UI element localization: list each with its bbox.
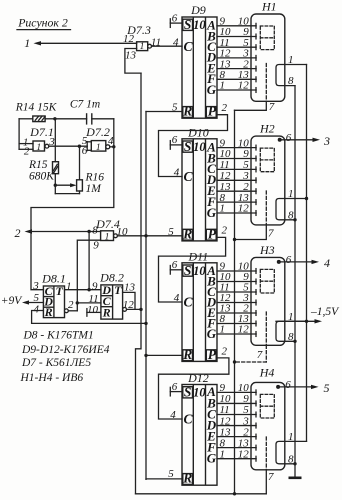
wire D7.1 output to D7.2 inputs: [49, 145, 87, 147]
svg-text:5: 5: [324, 381, 330, 395]
svg-text:1: 1: [66, 281, 72, 293]
H2 anode pin 6 wire to node 3: [278, 132, 330, 148]
D7.2 output bubble pin 4: [106, 145, 110, 149]
svg-text:6: 6: [286, 254, 292, 266]
svg-text:8: 8: [288, 75, 294, 87]
D8.2 R pin 10 stub with open T-bar: [87, 309, 101, 317]
resistor R15 680K: [28, 119, 59, 185]
wire D9 output D pin 12 to H1 pin 3: [217, 48, 256, 61]
svg-text:10: 10: [193, 386, 206, 400]
svg-text:C: C: [183, 39, 193, 54]
svg-text:6: 6: [172, 12, 178, 24]
svg-text:1M: 1M: [86, 183, 103, 195]
svg-text:8: 8: [92, 225, 98, 237]
svg-text:4: 4: [324, 256, 330, 270]
svg-text:G: G: [207, 451, 217, 466]
H4 grid electrode dashed line: [265, 437, 267, 470]
svg-text:1: 1: [288, 54, 294, 66]
svg-text:S: S: [184, 17, 192, 32]
svg-text:G: G: [207, 326, 217, 341]
junction H2 pin1 on bus: [305, 197, 308, 200]
svg-text:4: 4: [174, 166, 180, 178]
junction D7.4 out on bus B: [144, 234, 147, 237]
wire D11 output G pin 1 to H3 pin 12: [217, 324, 256, 337]
wire D11 output F pin 8 to H3 pin 13: [217, 313, 256, 326]
H2 7-segment digit (dashed figure 8): [260, 148, 274, 172]
svg-text:6: 6: [286, 132, 292, 144]
svg-text:Рисунок 2: Рисунок 2: [17, 16, 68, 30]
+9V supply arrow to D8.1 D input pin 5: [1, 295, 44, 307]
svg-text:9: 9: [92, 280, 98, 292]
wire D7.4 input 9 down to D8.1 Q-bar: [77, 240, 100, 311]
wire D9 output G pin 1 to H1 pin 12: [217, 80, 256, 93]
svg-text:R: R: [182, 104, 192, 119]
node R15 bottom / R16 wiper junction: [54, 184, 57, 187]
svg-text:6: 6: [172, 134, 178, 146]
svg-text:12: 12: [238, 203, 250, 215]
pin-1 bus vertical: [306, 65, 308, 442]
H3 filament bracket pins 1 and 8: [276, 311, 307, 343]
wire D11 output B pin 10 to H3 pin 9: [217, 271, 256, 284]
display H2 IV-6 VFD tube: [251, 122, 285, 225]
D11 R input wire pin 5 from bus B: [146, 354, 182, 356]
svg-text:P: P: [208, 347, 217, 362]
D7.2 input fork: [87, 142, 91, 151]
svg-text:5: 5: [168, 226, 174, 238]
component type annotations: [20, 330, 110, 384]
svg-text:2: 2: [24, 145, 30, 157]
D8.2 pin labels 9 11 10 13 12: [87, 280, 136, 316]
svg-text:7: 7: [268, 471, 274, 483]
svg-text:1: 1: [220, 448, 226, 460]
H4 7-segment digit (dashed figure 8): [260, 394, 274, 418]
H3 anode pin 6 wire to node 4: [277, 254, 330, 270]
svg-text:R: R: [182, 226, 192, 241]
H4 filament bracket pins 1 and 8: [276, 431, 307, 465]
svg-text:S: S: [184, 263, 192, 278]
svg-text:7: 7: [269, 101, 275, 113]
wire D9 output E pin 13 to H1 pin 2: [217, 58, 256, 71]
D7.3 output bubble: [148, 44, 152, 48]
svg-text:R: R: [182, 471, 192, 486]
svg-text:5: 5: [168, 468, 174, 480]
wire D9 output A pin 9 to H1 pin 10: [217, 16, 256, 29]
svg-text:9: 9: [93, 239, 99, 251]
svg-text:G: G: [207, 82, 217, 97]
bus A vertical (hours set line): [136, 73, 142, 494]
svg-text:S: S: [184, 139, 192, 154]
svg-text:D7.2: D7.2: [85, 125, 110, 139]
svg-text:8: 8: [288, 209, 294, 221]
capacitor C7 1m: [55, 99, 114, 125]
gate D7.4: [95, 217, 120, 242]
D10 S input pin 6 stub: [170, 134, 182, 149]
gate D7.2: [85, 125, 110, 153]
resistor R14 15K: [15, 102, 58, 122]
H4 grid pin 7 wire to bottom line: [266, 470, 274, 494]
H3 grid electrode dashed line: [265, 312, 267, 345]
svg-text:3: 3: [323, 134, 330, 148]
svg-text:H3: H3: [259, 243, 275, 257]
svg-text:D9-D12-К176ИЕ4: D9-D12-К176ИЕ4: [21, 344, 110, 356]
junction Qbar to D8.2 C wire: [76, 301, 79, 304]
display H4 IV-6 VFD tube: [251, 365, 285, 469]
node 1 external connection arrow: [24, 36, 41, 50]
svg-text:+9V: +9V: [1, 295, 24, 307]
svg-text:H1: H1: [261, 0, 277, 14]
wire D8.1 Q-bar to vertical feedback: [68, 310, 77, 312]
wire D10 output E pin 13 to H2 pin 2: [217, 181, 256, 194]
svg-text:P: P: [208, 104, 217, 119]
wire D8.1 Q pin 1 to D8.2 D pin 9: [65, 289, 101, 291]
wire D9 output F pin 8 to H1 pin 13: [217, 69, 256, 82]
gate D7.1: [29, 125, 54, 153]
wire D10 output A pin 9 to H2 pin 10: [217, 137, 256, 150]
H2 grid electrode dashed line: [265, 191, 267, 225]
svg-text:1: 1: [24, 36, 30, 50]
wire D11 output C pin 11 to H3 pin 5: [217, 282, 256, 295]
svg-text:C: C: [183, 412, 193, 427]
wire D8.2 pin 13 loop to pin 12 wire: [123, 292, 135, 309]
wire D8.1 R pin 4 to bottom reset line: [32, 311, 146, 324]
flip-flop D8.1 K176TM1: [41, 272, 66, 320]
svg-text:D8 - К176ТМ1: D8 - К176ТМ1: [23, 330, 94, 342]
D8.2 pin 12 bubble: [123, 308, 127, 312]
H4 anode pin 6 wire to node 5: [276, 379, 329, 395]
svg-text:C: C: [183, 295, 193, 310]
svg-text:1: 1: [105, 232, 110, 242]
svg-text:T: T: [56, 284, 64, 298]
H2 filament bracket pins 1 and 8: [276, 188, 307, 221]
svg-text:12: 12: [123, 33, 135, 45]
svg-text:1: 1: [220, 324, 226, 336]
svg-text:C7 1m: C7 1m: [70, 99, 100, 111]
D11 S input pin 6 stub: [170, 259, 182, 274]
wire D12 output G pin 1 to H4 pin 12: [217, 448, 256, 461]
wire D10 output F pin 8 to H2 pin 13: [217, 192, 256, 205]
D7.4 output bubble: [114, 234, 118, 238]
svg-text:D12: D12: [187, 371, 209, 385]
counter D9 K176IE4 block: [182, 3, 217, 118]
D8.1 pin labels 3 5 4 1 2: [32, 280, 74, 316]
svg-text:4: 4: [170, 409, 176, 421]
H1 7-segment digit (dashed figure 8): [260, 26, 274, 50]
H1 grid electrode dashed line: [265, 64, 267, 102]
svg-text:H4: H4: [259, 365, 275, 379]
svg-text:12: 12: [238, 448, 250, 460]
wire D12 output B pin 10 to H4 pin 9: [217, 393, 256, 406]
wire node1 to D7.3 input 12: [39, 42, 137, 44]
wire D12 output E pin 13 to H4 pin 2: [217, 426, 256, 439]
node D7.2 inputs / R16 top junction: [78, 145, 81, 148]
svg-text:2: 2: [222, 345, 228, 357]
D12 S input pin 6 stub: [170, 381, 182, 396]
bottom grid line: [136, 493, 267, 495]
D7.4 pin labels 8 9 10: [92, 225, 128, 252]
junction D11 R on bus B: [144, 354, 147, 357]
wire D7.3 input 13 to bus A: [125, 49, 141, 74]
svg-text:8: 8: [288, 453, 294, 465]
display H1 IV-6 VFD tube: [251, 0, 285, 101]
H3 grid pin 7 dashed wire: [235, 345, 267, 362]
title Рисунок 2: [17, 16, 71, 30]
D9 S input pin 6 stub: [170, 12, 182, 27]
wire oscillator output to D8.1 C input pin 3: [31, 147, 114, 290]
wire D10 output G pin 1 to H2 pin 12: [217, 203, 256, 216]
svg-text:3: 3: [32, 280, 39, 292]
svg-text:D10: D10: [187, 126, 209, 140]
svg-text:6: 6: [172, 259, 178, 271]
D11 P carry output pin 2 to D12 C input pin 4: [159, 345, 229, 420]
svg-text:G: G: [207, 205, 217, 220]
wire D12 output C pin 11 to H4 pin 5: [217, 404, 256, 417]
node 2 external connection arrow: [15, 226, 33, 240]
svg-text:4: 4: [34, 304, 40, 316]
wire D8.2 C input pin 11: [77, 302, 101, 304]
wire D7.2 output to node: [110, 146, 114, 148]
wire D12 output D pin 12 to H4 pin 3: [217, 415, 256, 428]
svg-text:6: 6: [172, 381, 178, 393]
grid bus vertical: [234, 110, 236, 494]
svg-text:1: 1: [220, 203, 226, 215]
counter D11 K176IE4 block: [182, 250, 217, 362]
H2 grid pin 7 wire: [235, 225, 275, 240]
svg-text:680K: 680K: [29, 171, 55, 183]
junction H2 pin8 on bus: [293, 218, 296, 221]
junction bottom reset line on bus B: [144, 322, 147, 325]
svg-text:T: T: [114, 283, 122, 297]
svg-text:4: 4: [174, 292, 180, 304]
wire D7.4 output pin 10 to reset bus B and D10 R pin 5: [117, 235, 182, 237]
svg-text:1: 1: [220, 80, 226, 92]
wire D11 output A pin 9 to H3 pin 10: [217, 261, 256, 274]
H1 grid pin 7 wire to grid bus: [235, 101, 275, 113]
junction node2 / Q1 tap: [87, 230, 90, 233]
D7.1 pin labels 1 2 3: [23, 136, 55, 157]
svg-text:8: 8: [288, 331, 294, 343]
svg-text:1: 1: [288, 431, 294, 443]
svg-text:10: 10: [193, 140, 206, 154]
svg-text:D9: D9: [190, 3, 206, 17]
svg-text:6: 6: [285, 379, 291, 391]
H3 pin 1 wire to -1.5V arrow: [276, 306, 340, 323]
svg-text:R16: R16: [85, 172, 105, 184]
svg-text:R14 15K: R14 15K: [15, 102, 58, 114]
svg-text:H2: H2: [259, 122, 275, 136]
H3 7-segment digit (dashed figure 8): [260, 269, 274, 293]
svg-text:13: 13: [125, 50, 137, 62]
wire D7.3 output pin 11 to D9 C input pin 4: [152, 36, 183, 48]
svg-text:5: 5: [172, 102, 178, 114]
junction H3 pin8 on bus: [293, 340, 296, 343]
D7.1 output bubble pin 3: [45, 144, 49, 148]
svg-text:4: 4: [173, 36, 179, 48]
node R14-C7-R15 junction: [53, 117, 56, 120]
svg-text:10: 10: [87, 304, 99, 316]
svg-text:C: C: [183, 169, 193, 184]
svg-text:2: 2: [222, 225, 228, 237]
wire D12 output A pin 9 to H4 pin 10: [217, 382, 256, 395]
wire D9 output C pin 11 to H1 pin 5: [217, 37, 256, 50]
svg-text:1: 1: [140, 42, 145, 52]
gate D7.3 (K561LE5 NOR as inverter): [126, 23, 151, 52]
wire C7 right plate down to D7.2 output node: [113, 119, 115, 147]
D7.2 pin labels 5 6 4: [82, 135, 114, 157]
svg-text:1: 1: [96, 143, 101, 153]
H1 filament bracket pins 1 and 8: [276, 54, 307, 87]
svg-text:10: 10: [193, 264, 206, 278]
svg-text:H1-H4 - ИВ6: H1-H4 - ИВ6: [20, 372, 84, 384]
svg-text:1: 1: [288, 188, 294, 200]
D9 P carry output pin 2 to D10 C input pin 4: [159, 102, 228, 179]
bus B vertical (reset bus): [145, 112, 147, 480]
D10 P carry output pin 2 to D11 C input pin 4: [159, 225, 228, 304]
D12 R input wire pin 5 from bus B: [146, 468, 182, 480]
flip-flop D8.2: [99, 271, 124, 320]
svg-text:2: 2: [68, 299, 74, 311]
junction pin 12 on bus A: [139, 308, 142, 311]
svg-text:D7 - К561ЛЕ5: D7 - К561ЛЕ5: [21, 357, 91, 369]
svg-text:R: R: [44, 305, 53, 319]
trimmer R16 1M with wiper arrow: [55, 146, 104, 195]
svg-text:1: 1: [36, 143, 41, 153]
D9 R input wire pin 5: [146, 102, 182, 114]
wire D11 output E pin 13 to H3 pin 2: [217, 303, 256, 316]
svg-text:2: 2: [222, 102, 228, 114]
svg-text:S: S: [184, 385, 192, 400]
D7.3 pin labels 12 13 11: [123, 33, 161, 62]
junction H4 pin8 / ground stub: [293, 462, 296, 465]
svg-text:12: 12: [238, 324, 250, 336]
wire tap from node 2 line down to Q1 wire: [88, 232, 90, 290]
wire D12 output F pin 8 to H4 pin 13: [217, 437, 256, 450]
D8.1 Q-bar bubble pin 2: [65, 309, 69, 313]
svg-text:P: P: [208, 226, 217, 241]
ground symbol: [289, 464, 302, 478]
svg-text:R: R: [182, 347, 192, 362]
wire D10 output C pin 11 to H2 pin 5: [217, 159, 256, 172]
svg-text:7: 7: [257, 349, 263, 361]
wire D11 output D pin 12 to H3 pin 3: [217, 292, 256, 305]
wire D10 output D pin 12 to H2 pin 3: [217, 170, 256, 183]
wire D9 output B pin 10 to H1 pin 9: [217, 26, 256, 39]
counter D10 K176IE4 block: [182, 126, 217, 242]
svg-text:12: 12: [238, 80, 250, 92]
svg-text:2: 2: [15, 226, 21, 240]
svg-text:–1,5V: –1,5V: [310, 306, 340, 318]
svg-text:7: 7: [268, 227, 274, 239]
node oscillator output junction: [112, 145, 115, 148]
wire D10 output B pin 10 to H2 pin 9: [217, 148, 256, 161]
svg-text:10: 10: [193, 18, 206, 32]
wires D7.1 inputs 1,2 tied to R14 left node: [19, 119, 33, 150]
pin-8 bus vertical: [294, 86, 296, 464]
counter D12 K176IE4 block: [182, 371, 217, 486]
svg-text:R: R: [102, 305, 111, 319]
display H3 IV-6 VFD tube: [251, 243, 285, 345]
svg-text:R15: R15: [28, 159, 48, 171]
wire D8.2 pin 12 to bus A: [127, 308, 141, 310]
wire node 2 to D7.4 input 8: [30, 231, 101, 233]
